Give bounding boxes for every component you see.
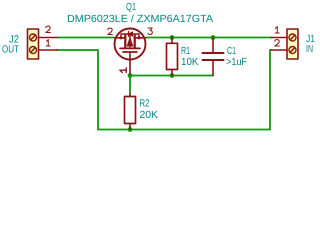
J2 pin 2 lead [39, 37, 58, 39]
wire net VOUT top (J2 pin2 to Q1 pin2) [58, 37, 115, 39]
label R2 [140, 99, 150, 110]
R1 top lead [171, 38, 173, 44]
connector J2 body [28, 29, 39, 59]
junction at R2 bottom rail [128, 127, 133, 132]
wire gate node horizontal (Q1 gate to R1/C1 bottoms) [130, 75, 213, 77]
Q1 pin number 2 [108, 28, 113, 34]
junction at C1 top [211, 35, 216, 40]
svg-text:C1: C1 [227, 46, 236, 57]
Q1 pin number 1 [120, 68, 127, 73]
channel line [120, 47, 140, 49]
junction at R1 bottom [170, 73, 175, 78]
body limb [129, 34, 131, 48]
C1 top lead [212, 38, 214, 53]
J2 pin number 1 [46, 40, 50, 46]
junction at R1 top [170, 35, 175, 40]
wire net VIN top (Q1 pin3 to J1 pin1) [146, 37, 271, 39]
drain stub [135, 37, 146, 39]
Q1 gate lead [129, 52, 131, 74]
svg-text:R2: R2 [140, 99, 150, 110]
body arrow [127, 38, 133, 46]
label DMP6023LE / ZXMP6A17GTA [67, 14, 213, 25]
Q1 pin number 3 [148, 28, 153, 34]
J1 pin 2 lead [271, 49, 287, 51]
svg-text:20K: 20K [140, 110, 159, 121]
wire right vertical to J1 pin2 [270, 50, 271, 130]
C1 bottom lead [212, 61, 214, 76]
label 20K [140, 110, 159, 121]
label J2 [9, 35, 19, 46]
label OUT [2, 45, 20, 56]
wire gate node vertical (junction down to R2 top) [129, 76, 131, 95]
label R1 [181, 46, 190, 57]
svg-text:DMP6023LE / ZXMP6A17GTA: DMP6023LE / ZXMP6A17GTA [67, 14, 213, 25]
label IN [306, 44, 313, 55]
transistor Q1 (PMOS with body diode) [115, 29, 146, 60]
body diode symbol [129, 32, 133, 37]
label >1uF [226, 57, 247, 68]
gate bar [123, 51, 137, 53]
capacitor C1 [203, 53, 224, 60]
wire bottom rail [98, 129, 270, 131]
J2 pin 1 lead [39, 49, 58, 51]
R1 bottom lead [171, 70, 173, 76]
R2 bottom lead [129, 124, 131, 130]
resistor R2 [125, 97, 136, 124]
J1 pin number 1 [275, 27, 279, 33]
body diode rail [121, 34, 139, 38]
J1 pin number 2 [275, 40, 280, 46]
label J1 [306, 34, 315, 45]
resistor R1 [167, 43, 178, 69]
svg-text:10K: 10K [181, 57, 199, 68]
label 10K [181, 57, 199, 68]
internal junction dots [119, 36, 122, 39]
source contact bar [124, 36, 126, 48]
svg-text:R1: R1 [181, 46, 190, 57]
svg-text:IN: IN [306, 44, 313, 55]
svg-text:Q1: Q1 [126, 2, 136, 13]
source stub [115, 37, 126, 39]
J1 pin 1 lead [271, 37, 287, 39]
label C1 [227, 46, 236, 57]
R2 top lead [129, 94, 131, 97]
svg-text:OUT: OUT [2, 45, 20, 56]
svg-text:>1uF: >1uF [226, 57, 247, 68]
label Q1 [126, 2, 136, 13]
connector J1 body [287, 29, 298, 59]
junction at gate node [128, 73, 133, 78]
J2 pin number 2 [46, 26, 51, 32]
wire J2 pin1 to bottom rail [58, 50, 99, 130]
drain contact bar [134, 36, 136, 48]
